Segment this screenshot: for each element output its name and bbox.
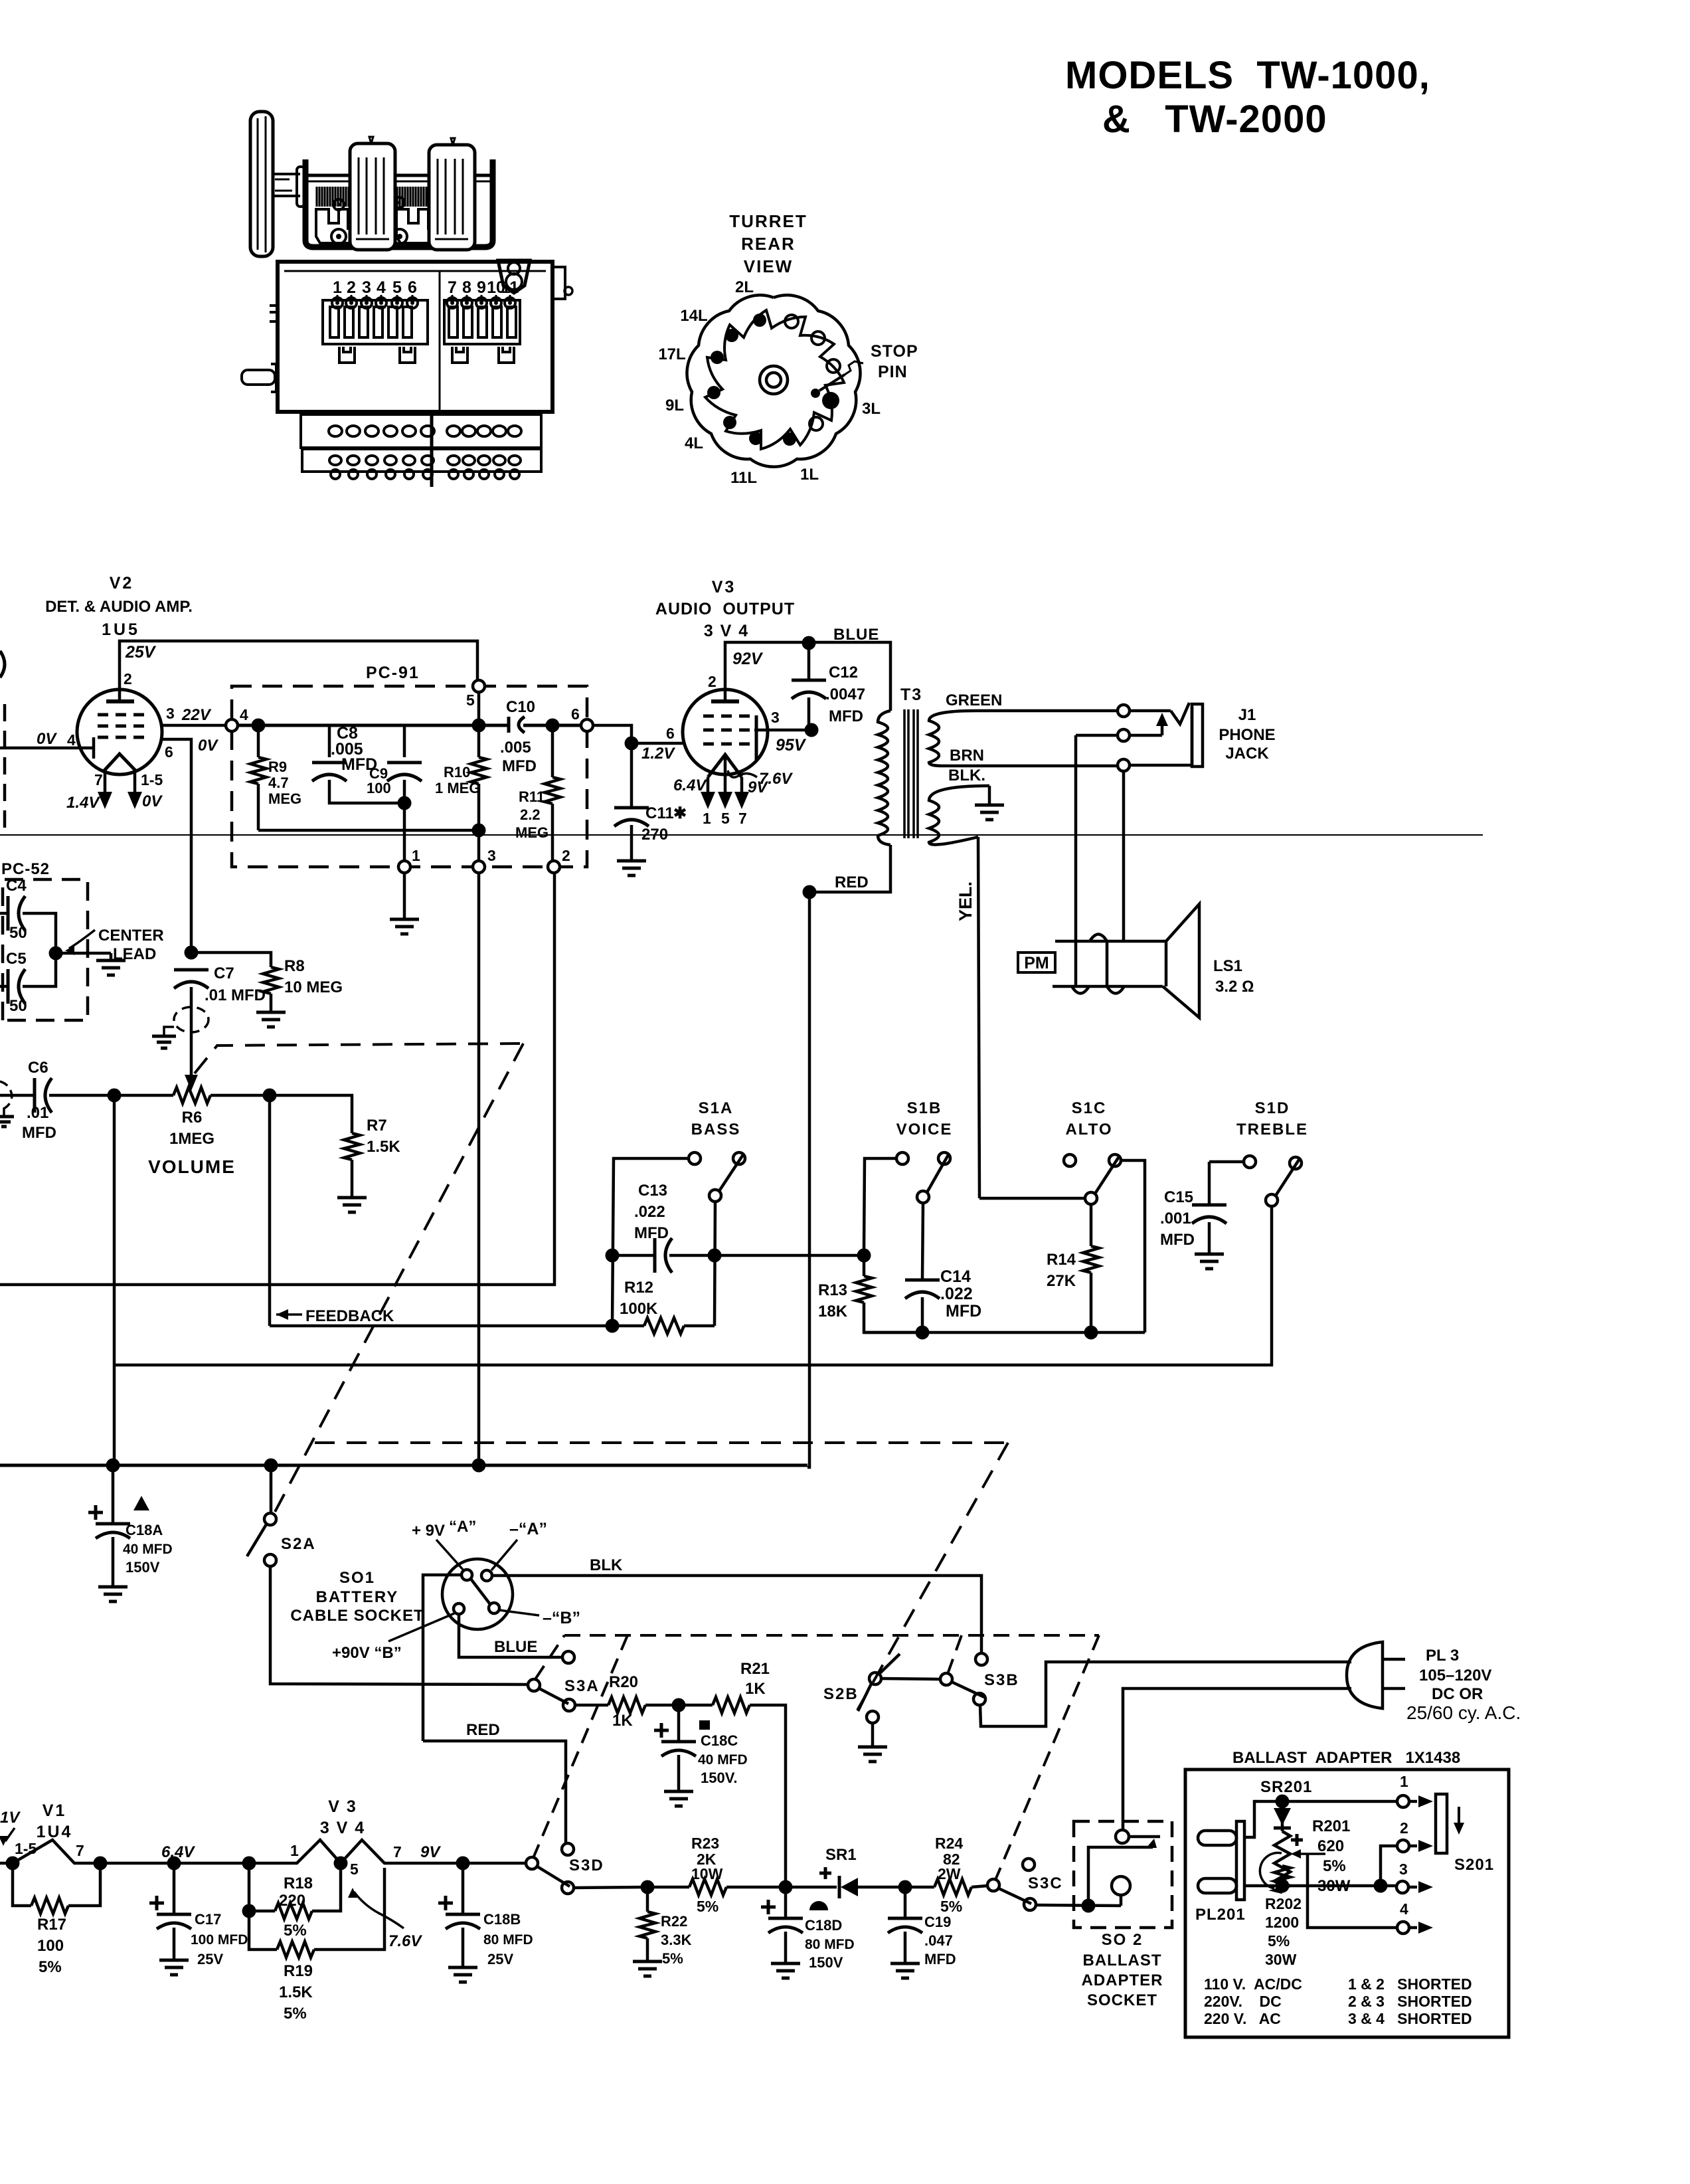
contact slot plate right <box>444 300 520 344</box>
svg-text:40 MFD: 40 MFD <box>123 1542 173 1557</box>
V2 filament <box>104 754 135 771</box>
tuning drum 1 <box>350 137 395 250</box>
gang line S2 volume switch <box>195 1044 523 1073</box>
svg-text:MEG: MEG <box>515 824 549 841</box>
V3 pin6 label <box>641 725 675 763</box>
svg-text:4: 4 <box>377 278 386 297</box>
svg-text:4: 4 <box>67 731 76 749</box>
svg-text:.005: .005 <box>500 739 531 757</box>
svg-text:3: 3 <box>1399 1861 1408 1878</box>
turret ratchet wheel <box>705 310 844 449</box>
PC-91 terminal 3 <box>473 847 496 873</box>
svg-text:R10: R10 <box>444 764 470 780</box>
svg-text:SO1: SO1 <box>339 1569 375 1587</box>
svg-text:MFD: MFD <box>924 1951 956 1967</box>
svg-text:1: 1 <box>412 847 420 864</box>
V2 pin7 lead 1.4V <box>66 771 112 812</box>
svg-text:1: 1 <box>1400 1773 1408 1790</box>
ballast pin 4 <box>1308 1854 1433 1934</box>
switch S3A <box>528 1651 575 1711</box>
svg-text:S1A: S1A <box>699 1099 734 1117</box>
svg-text:PIN: PIN <box>878 363 908 381</box>
PC-52 dashed box <box>3 879 88 1020</box>
svg-text:6.4V: 6.4V <box>673 776 707 794</box>
J1 ring contact BRN <box>1118 707 1192 771</box>
svg-text:R202: R202 <box>1265 1895 1302 1912</box>
shorting bar S201 <box>1436 1794 1494 1874</box>
svg-text:22V: 22V <box>181 706 212 724</box>
wire S2A to S3A <box>270 1566 528 1684</box>
page fold line <box>0 834 1483 836</box>
svg-text:6: 6 <box>666 725 675 742</box>
svg-text:C19: C19 <box>924 1914 951 1930</box>
svg-text:8: 8 <box>462 278 471 297</box>
chassis right bracket <box>498 260 572 299</box>
tuner coil form hatch left <box>317 187 349 207</box>
svg-text:7: 7 <box>738 810 747 827</box>
switch S3D <box>463 1843 574 1894</box>
stop pin label <box>871 342 918 381</box>
svg-text:0V: 0V <box>142 792 163 810</box>
gang line S2 diagonal to S2A <box>274 1044 523 1513</box>
switch S2A <box>247 1465 316 1566</box>
switch S1D labels <box>1236 1099 1308 1138</box>
svg-text:10W: 10W <box>691 1865 723 1882</box>
V2 grid rows <box>98 715 151 737</box>
svg-text:150V.: 150V. <box>701 1770 737 1786</box>
shielded input at left edge <box>0 1081 14 1127</box>
switch S1B labels <box>896 1099 953 1138</box>
terminal strip lower <box>302 449 541 479</box>
center lead callout <box>65 927 164 963</box>
svg-text:3: 3 <box>487 847 496 864</box>
wire R9 bottom to R10 <box>258 829 479 832</box>
svg-text:CENTER: CENTER <box>98 927 164 945</box>
svg-text:MFD: MFD <box>22 1124 56 1142</box>
capacitor C8 .005 MFD <box>312 724 406 803</box>
svg-text:5%: 5% <box>284 2005 307 2023</box>
svg-text:C4: C4 <box>6 877 27 895</box>
svg-text:R19: R19 <box>284 1962 313 1980</box>
svg-text:2: 2 <box>347 278 356 297</box>
svg-text:17L: 17L <box>658 345 685 363</box>
svg-text:R7: R7 <box>367 1117 387 1135</box>
tuner clip middle with screws <box>392 197 438 244</box>
svg-text:S2B: S2B <box>823 1685 859 1703</box>
svg-text:R20: R20 <box>609 1673 638 1691</box>
V2 pin1-5 lead 0V <box>127 771 163 810</box>
tuner coil form hatch middle <box>397 187 426 207</box>
resistor R20 1K <box>575 1673 679 1730</box>
svg-text:9V: 9V <box>420 1843 441 1861</box>
svg-text:4: 4 <box>240 706 248 723</box>
tuner flywheel <box>250 112 273 256</box>
tuner clip left with screws <box>316 199 359 244</box>
V2 pin6 wire <box>161 737 218 953</box>
svg-text:BALLAST ADAPTER 1X1438: BALLAST ADAPTER 1X1438 <box>1232 1749 1460 1767</box>
svg-text:VIEW: VIEW <box>744 256 793 276</box>
svg-text:R21: R21 <box>740 1660 770 1678</box>
capacitor C18B 80 MFD 25V <box>438 1863 533 1982</box>
wire C17 to V3 filament <box>174 1857 256 1870</box>
turret hub <box>760 366 788 394</box>
turret rear view label <box>729 211 807 276</box>
svg-text:2: 2 <box>708 673 717 690</box>
V3 pin5 lead <box>718 755 732 827</box>
battery socket SO1 labels <box>290 1569 424 1625</box>
svg-text:V3: V3 <box>712 578 736 596</box>
svg-text:6.4V: 6.4V <box>161 1843 195 1861</box>
svg-text:1L: 1L <box>800 466 819 484</box>
resistor R202 1200 5% 30W <box>1260 1853 1302 1968</box>
svg-text:R24: R24 <box>935 1835 963 1852</box>
svg-text:4: 4 <box>1400 1900 1408 1918</box>
capacitor C15 .001 MFD <box>1160 1162 1226 1269</box>
wire S3B to PL3 <box>980 1662 1351 1726</box>
switch S1C <box>979 1154 1145 1332</box>
svg-text:TREBLE: TREBLE <box>1236 1121 1308 1138</box>
tube V2 envelope <box>77 689 162 774</box>
svg-text:1200: 1200 <box>1265 1914 1299 1931</box>
svg-text:V 3: V 3 <box>328 1797 357 1816</box>
svg-text:1: 1 <box>333 278 342 297</box>
title MODELS TW-1000 & TW-2000 <box>1065 54 1430 141</box>
svg-text:2 & 3 SHORTED: 2 & 3 SHORTED <box>1348 1993 1472 2010</box>
resistor R22 3.3K 5% <box>633 1880 692 1977</box>
BLUE wire SO1 to S3A <box>459 1614 562 1657</box>
svg-text:3: 3 <box>166 705 175 722</box>
svg-text:RED: RED <box>466 1721 500 1739</box>
PC-91 terminal 2 <box>548 847 570 873</box>
svg-text:6: 6 <box>571 705 580 723</box>
plug PL3 <box>1347 1642 1405 1708</box>
svg-text:CABLE SOCKET: CABLE SOCKET <box>290 1607 424 1625</box>
svg-text:7.6V: 7.6V <box>759 770 793 788</box>
svg-text:V2: V2 <box>110 574 134 592</box>
svg-text:95V: 95V <box>776 736 807 755</box>
capacitor C11 270 <box>614 743 687 875</box>
svg-text:STOP: STOP <box>871 342 918 361</box>
ballast adapter box <box>1185 1770 1509 2037</box>
svg-text:7: 7 <box>448 278 457 297</box>
svg-text:ADAPTER: ADAPTER <box>1081 1971 1163 1989</box>
svg-text:1-5: 1-5 <box>141 771 163 788</box>
svg-text:BLUE: BLUE <box>494 1638 537 1656</box>
B minus bus <box>0 1459 807 1473</box>
wire terminal6 to V3 pin6 <box>593 725 683 751</box>
tuner chassis box <box>278 262 552 412</box>
resistor R7 1.5K <box>270 1095 400 1212</box>
svg-text:1.2V: 1.2V <box>641 745 675 763</box>
svg-text:ALTO: ALTO <box>1065 1121 1112 1138</box>
svg-text:S1D: S1D <box>1255 1099 1290 1117</box>
svg-text:R12: R12 <box>624 1279 653 1297</box>
J1 sleeve wire <box>1076 735 1118 986</box>
svg-text:MODELS TW-1000,: MODELS TW-1000, <box>1065 54 1430 97</box>
ballast socket SO2 <box>1074 1821 1172 1928</box>
T3 core <box>904 709 918 838</box>
-A callout <box>491 1520 547 1570</box>
center lead ground <box>96 953 126 975</box>
svg-text:SOCKET: SOCKET <box>1087 1991 1157 2009</box>
svg-text:3: 3 <box>771 709 780 726</box>
C7 shield ring and ground <box>152 1007 209 1048</box>
svg-text:C15: C15 <box>1164 1188 1193 1206</box>
svg-text:10 MEG: 10 MEG <box>284 978 343 996</box>
turret lobe labels <box>658 278 881 487</box>
svg-text:J1: J1 <box>1238 706 1256 724</box>
tone rail B <box>864 1331 1145 1334</box>
svg-text:R201: R201 <box>1312 1817 1350 1835</box>
svg-text:40 MFD: 40 MFD <box>698 1752 748 1768</box>
svg-text:R18: R18 <box>284 1874 313 1892</box>
svg-text:25V: 25V <box>197 1951 223 1967</box>
svg-text:3 & 4 SHORTED: 3 & 4 SHORTED <box>1348 2010 1472 2027</box>
svg-text:50: 50 <box>9 997 27 1015</box>
svg-text:DC OR: DC OR <box>1432 1685 1483 1703</box>
feedback wire <box>270 1324 611 1328</box>
capacitor C5 50 <box>0 950 56 1015</box>
svg-text:& TW-2000: & TW-2000 <box>1102 98 1327 141</box>
svg-text:25V: 25V <box>487 1951 513 1967</box>
svg-text:150V: 150V <box>809 1954 843 1971</box>
svg-text:5%: 5% <box>940 1898 962 1915</box>
capacitor C14 .022 MFD <box>905 1203 981 1340</box>
svg-text:80 MFD: 80 MFD <box>805 1937 855 1952</box>
PC-91 dashed box <box>232 686 587 867</box>
switch S2B <box>858 1654 940 1723</box>
capacitor C13 .022 MFD <box>606 1182 722 1273</box>
svg-text:R11: R11 <box>519 788 545 805</box>
PC-91 terminal 5 <box>466 680 485 709</box>
svg-text:.01 MFD: .01 MFD <box>205 986 266 1004</box>
svg-text:1MEG: 1MEG <box>169 1130 214 1148</box>
wire jack to speaker <box>1122 771 1126 941</box>
svg-text:LS1: LS1 <box>1213 957 1242 975</box>
svg-text:1V: 1V <box>0 1809 21 1827</box>
turret contact dots <box>707 314 840 446</box>
svg-text:BLK: BLK <box>590 1556 623 1574</box>
turret stop pin <box>811 361 863 398</box>
wire to C17 node 6.4V <box>100 1843 195 1870</box>
svg-text:.022: .022 <box>634 1203 665 1221</box>
gang line S3 diagonal to S3C <box>995 1635 1099 1880</box>
gang line S2 diagonal to S2B <box>855 1443 1008 1714</box>
actuator rod <box>430 412 434 487</box>
resistor R24 82 2W 5% <box>905 1835 987 1915</box>
V2 pin2 lead 25V <box>120 641 477 701</box>
wire volume right leg to feedback <box>268 1095 272 1326</box>
switch S1C labels <box>1065 1099 1112 1138</box>
dashed enclosure at left edge <box>3 704 7 828</box>
svg-text:620: 620 <box>1317 1837 1344 1855</box>
T3 primary winding <box>878 711 890 845</box>
svg-text:BASS: BASS <box>691 1121 741 1138</box>
svg-text:C10: C10 <box>506 698 535 716</box>
svg-text:1.4V: 1.4V <box>66 794 100 812</box>
svg-text:100: 100 <box>367 780 391 796</box>
chassis tabs <box>339 347 514 363</box>
tube V3 labels <box>655 578 795 640</box>
svg-text:2L: 2L <box>735 278 754 296</box>
plug PL201 <box>1195 1821 1246 1924</box>
svg-text:C18A: C18A <box>126 1522 163 1538</box>
capacitor C18D 80 MFD 150V <box>761 1880 855 1979</box>
tube V2 labels <box>45 574 193 639</box>
svg-text:+ 9V: + 9V <box>412 1522 445 1540</box>
B+ wire V3 to bus <box>807 892 809 1467</box>
V3 pin7 lead 9V <box>734 777 768 827</box>
filament line V1 <box>0 1840 108 1870</box>
svg-text:T3: T3 <box>900 685 922 704</box>
resistor R14 27K <box>1047 1204 1099 1340</box>
svg-text:5%: 5% <box>697 1898 718 1915</box>
V3 filament symbol <box>249 1840 470 1878</box>
svg-text:.001: .001 <box>1160 1210 1191 1228</box>
PC-91 terminal 6 <box>571 705 593 731</box>
7.6V callout <box>728 770 793 788</box>
svg-text:AUDIO OUTPUT: AUDIO OUTPUT <box>655 600 795 618</box>
ballast voltage table <box>1204 1975 1472 2027</box>
svg-text:–“B”: –“B” <box>543 1609 580 1627</box>
BLK wire SO1 to S3B <box>492 1556 981 1653</box>
svg-text:+90V “B”: +90V “B” <box>332 1644 402 1662</box>
svg-text:1 & 2 SHORTED: 1 & 2 SHORTED <box>1348 1975 1472 1993</box>
treble rail to volume line <box>114 1206 1272 1365</box>
svg-text:C6: C6 <box>28 1059 48 1077</box>
svg-text:100K: 100K <box>620 1300 658 1318</box>
switch S1A labels <box>691 1099 741 1138</box>
svg-text:C7: C7 <box>214 964 234 982</box>
svg-text:C18D: C18D <box>805 1917 842 1934</box>
svg-text:C5: C5 <box>6 950 27 968</box>
partial tube at left edge <box>0 651 5 678</box>
contact lugs row <box>332 295 515 308</box>
svg-text:JACK: JACK <box>1225 745 1269 763</box>
wire terminal5 to node <box>477 692 481 725</box>
center lead node <box>49 947 112 960</box>
svg-text:VOICE: VOICE <box>896 1121 953 1138</box>
svg-text:25V: 25V <box>125 643 157 662</box>
YEL wire down <box>956 837 979 1198</box>
svg-text:PHONE: PHONE <box>1219 726 1275 744</box>
resistor R10 1 MEG <box>435 725 487 861</box>
svg-text:VOLUME: VOLUME <box>148 1156 236 1177</box>
wire volume left leg to bus <box>113 1095 116 1465</box>
svg-text:MFD: MFD <box>502 757 537 775</box>
svg-text:MEG: MEG <box>268 790 301 807</box>
V3 pin2 lead 92V <box>708 642 809 701</box>
svg-text:2: 2 <box>1400 1819 1408 1837</box>
ballast pin 1 <box>1282 1773 1433 1807</box>
BLK lead and ground <box>948 767 1004 820</box>
tube V3 envelope <box>683 689 768 774</box>
resistor R11 2.2 MEG <box>515 725 560 861</box>
svg-text:BLK.: BLK. <box>948 767 985 784</box>
svg-text:PC-52: PC-52 <box>1 860 50 878</box>
svg-text:7: 7 <box>76 1842 84 1859</box>
svg-text:V1: V1 <box>42 1801 67 1820</box>
LS1 labels <box>1213 957 1254 996</box>
resistor R12 100K <box>606 1279 715 1334</box>
svg-text:5: 5 <box>466 691 475 709</box>
svg-text:150V: 150V <box>126 1559 160 1576</box>
svg-text:R23: R23 <box>691 1835 719 1852</box>
svg-text:PL 3: PL 3 <box>1426 1647 1459 1665</box>
svg-text:6: 6 <box>408 278 417 297</box>
capacitor C9 100 <box>367 725 422 861</box>
svg-text:.01: .01 <box>27 1104 48 1122</box>
svg-text:PC-91: PC-91 <box>366 664 420 682</box>
capacitor C10 .005 MFD <box>500 698 537 775</box>
svg-text:220: 220 <box>279 1892 305 1910</box>
capacitor C12 .0047 MFD <box>792 643 865 730</box>
svg-text:4.7: 4.7 <box>268 774 289 791</box>
svg-text:S3C: S3C <box>1028 1874 1063 1892</box>
svg-text:C12: C12 <box>829 664 858 682</box>
svg-text:S3B: S3B <box>984 1671 1019 1689</box>
svg-text:BATTERY: BATTERY <box>316 1588 399 1606</box>
svg-text:C18C: C18C <box>701 1732 738 1749</box>
svg-text:5%: 5% <box>1268 1932 1290 1950</box>
tube V1 labels <box>37 1801 73 1841</box>
contact numbers 1-6 <box>333 278 417 297</box>
capacitor C6 .01 MFD <box>0 1059 114 1142</box>
V3 filament <box>708 755 742 777</box>
gang line S2 branch horizontal <box>315 1441 1008 1444</box>
svg-text:LEAD: LEAD <box>113 945 156 963</box>
svg-text:3 V 4: 3 V 4 <box>320 1819 365 1837</box>
PC-91 main wire node <box>238 719 581 733</box>
capacitor C18A 40MFD 150V <box>88 1465 173 1601</box>
svg-text:9: 9 <box>477 278 486 297</box>
svg-text:MFD: MFD <box>1160 1231 1195 1249</box>
7.6V callout lower <box>348 1888 422 1950</box>
speaker LS1 cone <box>1163 904 1199 1018</box>
svg-text:3: 3 <box>362 278 371 297</box>
svg-text:S1C: S1C <box>1072 1099 1107 1117</box>
V2 pin4 wire 0V <box>0 730 94 759</box>
V3 pin1 lead 6.4V <box>673 776 715 827</box>
wire PC-91 terminal 3 to bus <box>477 873 481 1465</box>
T3 primary bottom lead RED <box>803 845 891 899</box>
svg-text:R13: R13 <box>818 1281 847 1299</box>
terminal strip upper <box>301 414 541 448</box>
V3 beam plate <box>755 715 758 761</box>
svg-text:DET. & AUDIO AMP.: DET. & AUDIO AMP. <box>45 598 193 616</box>
svg-text:3.2 Ω: 3.2 Ω <box>1215 978 1254 996</box>
contact numbers 7-11 <box>448 278 519 297</box>
svg-text:7: 7 <box>94 771 103 788</box>
svg-text:1-5: 1-5 <box>15 1840 37 1857</box>
svg-text:GREEN: GREEN <box>946 691 1002 709</box>
svg-text:110 V. AC/DC: 110 V. AC/DC <box>1204 1975 1302 1993</box>
svg-text:–“A”: –“A” <box>509 1520 547 1538</box>
svg-text:100: 100 <box>37 1937 64 1955</box>
+9V A callout <box>412 1518 476 1570</box>
svg-text:R14: R14 <box>1047 1251 1076 1269</box>
resistor R17 100 5% <box>13 1863 100 1976</box>
C13 line to R13 <box>715 1254 864 1257</box>
svg-text:1K: 1K <box>612 1712 633 1730</box>
svg-text:3 V 4: 3 V 4 <box>704 622 749 640</box>
svg-text:.047: .047 <box>924 1932 953 1949</box>
svg-text:S3D: S3D <box>569 1857 604 1874</box>
switch S3C <box>987 1859 1036 1910</box>
svg-text:C14: C14 <box>940 1267 971 1286</box>
svg-text:S3A: S3A <box>564 1677 600 1695</box>
feedback arrow label <box>276 1307 394 1325</box>
